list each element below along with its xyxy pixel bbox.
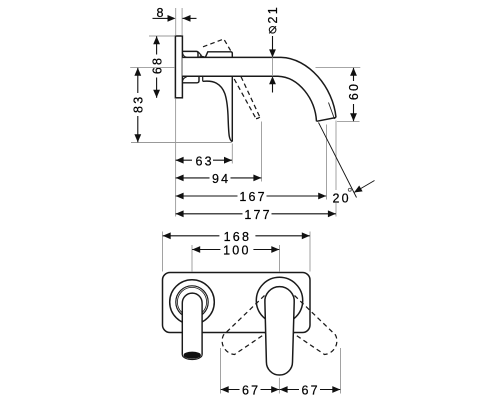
- dashed handle top blade (open position): [203, 39, 231, 51]
- svg-text:8: 8: [157, 6, 166, 20]
- svg-text:68: 68: [150, 56, 164, 74]
- dim 67 right: [280, 389, 341, 391]
- lower collar stub: [182, 76, 199, 83]
- left escutcheon outer circle: [170, 280, 215, 325]
- svg-text:63: 63: [195, 154, 213, 168]
- handle lever front edge: [231, 76, 233, 141]
- dashed lever (open position, side view): [234, 77, 260, 119]
- dim 68: [156, 36, 158, 98]
- svg-text:20: 20: [332, 192, 350, 206]
- left extension line (wall face): [175, 99, 177, 217]
- spout outlet face: [317, 118, 337, 122]
- svg-text:67: 67: [301, 384, 319, 398]
- handle neck ticks: [202, 76, 204, 81]
- svg-text:168: 168: [224, 230, 251, 244]
- dim 168: [163, 235, 310, 237]
- upper collar stub on spout: [182, 51, 198, 57]
- dim 83: [137, 68, 139, 143]
- svg-text:177: 177: [244, 208, 271, 222]
- svg-text:167: 167: [239, 190, 266, 204]
- 20 deg angle line: [319, 123, 357, 198]
- dim 63: [176, 159, 232, 161]
- wall escutcheon plate (front view): [163, 273, 311, 333]
- dim D21: [272, 57, 274, 76]
- dim 167: [176, 195, 327, 197]
- svg-text:83: 83: [132, 95, 146, 113]
- right escutcheon circle: [256, 277, 302, 323]
- dim 68 extension lines: [149, 35, 175, 37]
- dashed handle swing right: [292, 296, 337, 355]
- dim 100 extension lines: [192, 245, 280, 272]
- handle top blade (side view, closed): [205, 52, 232, 58]
- wall plate (side view): [175, 36, 182, 98]
- handle lever (front view): [265, 287, 294, 375]
- spout tube (front view): [182, 293, 202, 355]
- handle lever (side view, hanging down): [203, 81, 233, 141]
- svg-text:67: 67: [242, 384, 260, 398]
- dim 94: [176, 177, 262, 179]
- spout (side view): [182, 57, 336, 121]
- dim 168 extension lines: [163, 232, 311, 272]
- dim 67 left: [221, 389, 280, 391]
- dim 8: [153, 17, 168, 19]
- svg-text:21: 21: [266, 5, 280, 23]
- right ext for 94: [261, 122, 263, 182]
- svg-text:94: 94: [212, 172, 230, 186]
- right ext for 63: [231, 144, 233, 164]
- upper collar fillet at plate: [182, 53, 186, 58]
- dim 177: [176, 213, 336, 215]
- svg-text:60: 60: [347, 82, 361, 100]
- dim 67/67 extension lines: [221, 348, 341, 394]
- left escutcheon inner rings: [176, 286, 208, 318]
- 20 deg arrow + tail: [354, 181, 375, 193]
- handle front slope (side view): [198, 52, 205, 58]
- dim 60: [353, 68, 355, 121]
- dim 8 extension lines: [176, 8, 182, 36]
- right ext for 167: [326, 125, 328, 200]
- right ext for 177: [335, 121, 337, 217]
- spout outlet (front view): [182, 355, 202, 360]
- dim 60 extension lines: [316, 68, 361, 122]
- dim 100: [192, 249, 279, 251]
- dashed handle swing left: [222, 296, 267, 355]
- dim 83 extension lines: [130, 68, 231, 143]
- svg-text:100: 100: [223, 244, 250, 258]
